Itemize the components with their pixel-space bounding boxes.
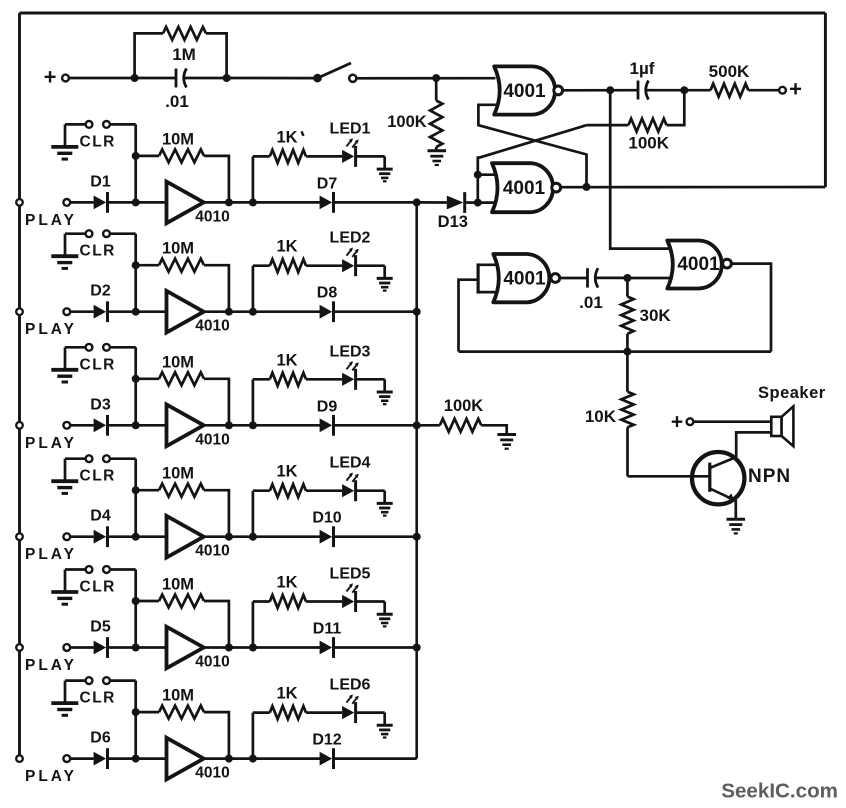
svg-text:PLAY: PLAY	[25, 768, 77, 785]
svg-text:4001: 4001	[503, 178, 546, 199]
node 10M tap row 1	[132, 152, 140, 160]
wire D4 to buffer input	[108, 535, 167, 538]
wire + terminal to 1M/.01 node	[69, 77, 135, 80]
node bus junction row 4	[413, 533, 421, 541]
svg-text:1µf: 1µf	[630, 59, 655, 78]
node junction A (left of .01)	[131, 74, 139, 82]
svg-text:D2: D2	[90, 283, 111, 300]
wire D3 to buffer input	[108, 424, 167, 427]
wire LED1 to ground	[357, 156, 385, 169]
resistor 10M row 1	[136, 130, 229, 202]
svg-text:D11: D11	[313, 621, 342, 638]
node junction CLR row 5	[132, 644, 140, 652]
diode D12	[312, 732, 341, 769]
svg-text:4010: 4010	[195, 765, 229, 782]
ground at CLR row 3	[51, 370, 78, 382]
svg-text:D8: D8	[317, 285, 338, 302]
node junction D (osc RC)	[623, 274, 631, 282]
node + supply terminal (top left)	[44, 65, 69, 90]
svg-text:NPN: NPN	[748, 466, 791, 487]
speaker LS1	[758, 384, 826, 446]
wire LED6 to ground	[357, 713, 385, 726]
resistor 1K row 5	[253, 574, 342, 648]
node junction CLR row 4	[132, 533, 140, 541]
wire 1M feedback loop	[135, 33, 227, 78]
wire buffer output row 5	[204, 646, 323, 649]
svg-text:.01: .01	[165, 92, 189, 111]
svg-text:4010: 4010	[195, 208, 229, 225]
switch S1 pole	[313, 74, 322, 83]
ground at CLR row 5	[51, 592, 78, 604]
resistor 10M row 6	[136, 687, 229, 759]
svg-text:D5: D5	[90, 619, 111, 636]
svg-text:CLR: CLR	[80, 243, 116, 260]
svg-text:D10: D10	[312, 510, 341, 527]
svg-text:CLR: CLR	[80, 133, 116, 150]
svg-text:D7: D7	[317, 175, 338, 192]
transistor Q1 NPN	[692, 452, 791, 504]
diode D9	[317, 398, 338, 435]
svg-text:1K: 1K	[276, 574, 297, 592]
wire D1 to buffer input	[108, 201, 167, 204]
svg-text:1K: 1K	[276, 463, 297, 481]
wire buffer output row 2	[204, 310, 323, 313]
wire D12 to bus	[334, 757, 417, 760]
diode D5	[90, 619, 111, 658]
wire CLR to row 4 line	[110, 459, 136, 537]
svg-text:+: +	[44, 65, 57, 90]
svg-text:4001: 4001	[503, 81, 546, 102]
svg-text:SeekIC.com: SeekIC.com	[721, 780, 838, 803]
wire U4 output down to feedback	[732, 264, 771, 352]
node PLAY bus tap row 6	[16, 755, 23, 762]
svg-text:4010: 4010	[195, 654, 229, 671]
wire to switch	[227, 77, 318, 80]
LED2	[330, 230, 371, 277]
svg-text:1M: 1M	[172, 45, 196, 64]
wire U2 output to right edge	[561, 186, 826, 189]
diode D10	[312, 510, 341, 547]
buffer U9 4010 row 5	[167, 627, 230, 671]
buffer U7 4010 row 3	[167, 405, 230, 449]
svg-text:10M: 10M	[162, 465, 194, 483]
watermark SeekIC.com	[721, 780, 838, 803]
ground after LED6	[377, 725, 393, 737]
ground at CLR row 6	[51, 703, 78, 715]
node bus junction row 5	[413, 644, 421, 652]
svg-text:10M: 10M	[162, 576, 194, 594]
svg-text:10M: 10M	[162, 240, 194, 258]
node 1K tap row 3	[249, 421, 257, 429]
LED1	[330, 120, 371, 167]
svg-text:D6: D6	[90, 730, 111, 747]
node PLAY terminal row 4	[25, 533, 77, 563]
wire D7 to bus	[334, 201, 417, 204]
svg-text:D1: D1	[90, 173, 111, 190]
node junction CLR row 3	[132, 421, 140, 429]
node junction U2 output	[583, 183, 591, 191]
svg-text:CLR: CLR	[80, 356, 116, 373]
resistor 1K row 1	[253, 128, 342, 202]
diode D13	[438, 192, 468, 231]
node 1K tap row 5	[249, 644, 257, 652]
node PLAY terminal row 3	[25, 422, 77, 452]
wire LED2 to ground	[357, 266, 385, 279]
node junction B (right of 1M)	[223, 74, 231, 82]
wire D9 to bus	[334, 424, 417, 427]
wire top edge	[20, 12, 826, 15]
wire CLR to row 2 line	[110, 234, 136, 312]
svg-text:4010: 4010	[195, 431, 229, 448]
switch S1 arm	[318, 63, 352, 78]
wire PLAY to D4	[70, 535, 93, 538]
wire buffer output row 1	[204, 201, 323, 204]
switch CLR row 2	[65, 230, 116, 259]
wire D5 to buffer input	[108, 646, 167, 649]
node 10M output junction row 3	[225, 421, 233, 429]
resistor 10M row 2	[136, 240, 229, 312]
node junction at 100K pulldown	[432, 74, 440, 82]
node bus junction row 3	[413, 421, 421, 429]
buffer U5 4010 row 1	[167, 182, 230, 226]
diode D4	[90, 508, 111, 547]
node 10M output junction row 4	[225, 533, 233, 541]
wire buffer output row 3	[204, 424, 323, 427]
svg-text:D13: D13	[438, 213, 468, 231]
svg-text:.01: .01	[579, 293, 603, 312]
ground at CLR row 2	[51, 256, 78, 268]
resistor 1M	[163, 27, 206, 64]
wire D10 to bus	[334, 535, 417, 538]
buffer U8 4010 row 4	[167, 516, 230, 560]
node 1K tap row 6	[249, 755, 257, 763]
ground at CLR row 1	[51, 147, 78, 159]
svg-text:PLAY: PLAY	[25, 212, 77, 229]
node 10M tap row 5	[132, 597, 140, 605]
switch CLR row 6	[65, 677, 116, 706]
node PLAY bus tap row 2	[16, 308, 23, 315]
svg-text:LED4: LED4	[330, 455, 371, 472]
resistor 1K row 6	[253, 685, 342, 759]
switch CLR row 4	[65, 455, 116, 484]
NOR gate U3 4001	[493, 254, 559, 302]
NOR gate U4 4001	[667, 241, 731, 289]
LED3	[330, 343, 371, 390]
svg-text:1K: 1K	[276, 351, 297, 369]
capacitor 1µf	[630, 59, 685, 100]
wire D2 to buffer input	[108, 310, 167, 313]
node 10M output junction row 6	[225, 755, 233, 763]
svg-text:PLAY: PLAY	[25, 657, 77, 674]
wire row 3 to 100K	[417, 424, 440, 427]
svg-text:PLAY: PLAY	[25, 435, 77, 452]
node + speaker supply	[671, 410, 694, 433]
resistor 1K row 3	[253, 351, 342, 425]
switch CLR row 1	[65, 121, 116, 150]
wire D6 to buffer input	[108, 757, 167, 760]
wire U1 output node down to U4 input	[610, 90, 670, 248]
node U2 upper input	[474, 171, 482, 179]
svg-text:10K: 10K	[585, 407, 617, 426]
wire CLR to row 5 line	[110, 570, 136, 648]
node 10M tap row 6	[132, 708, 140, 716]
switch S1 throw terminal	[349, 75, 356, 82]
wire U1 lower input stub / cross-couple A	[478, 105, 586, 187]
wire cross-couple B to U2 inputs	[478, 125, 587, 175]
node junction E (feedback/10K)	[623, 348, 631, 356]
ground after LED5	[377, 614, 393, 626]
wire U1 output	[563, 89, 638, 92]
switch CLR row 5	[65, 566, 116, 595]
svg-text:1K: 1K	[276, 685, 297, 703]
node PLAY terminal row 6	[25, 755, 77, 785]
ground after row-3 100K	[497, 435, 516, 449]
wire U2 input tie bar	[478, 175, 495, 203]
node junction CLR row 2	[132, 308, 140, 316]
svg-text:100K: 100K	[628, 134, 669, 153]
ground after LED1	[377, 169, 393, 181]
svg-text:D3: D3	[90, 396, 111, 413]
node 1K tap row 2	[249, 308, 257, 316]
svg-text:1K: 1K	[276, 238, 297, 256]
node 10M output junction row 2	[225, 308, 233, 316]
wire PLAY to D2	[70, 310, 93, 313]
svg-text:LED3: LED3	[330, 343, 371, 360]
svg-text:Speaker: Speaker	[758, 384, 826, 402]
svg-text:30K: 30K	[640, 306, 672, 325]
diode D6	[90, 730, 111, 769]
svg-text:4001: 4001	[503, 269, 546, 290]
node 10M output junction row 1	[225, 198, 233, 206]
wire CLR to row 3 line	[110, 347, 136, 425]
svg-text:10M: 10M	[162, 687, 194, 705]
wire left PLAY bus	[18, 13, 21, 759]
node 1K tap row 1	[249, 198, 257, 206]
node PLAY bus tap row 3	[16, 422, 23, 429]
svg-text:4010: 4010	[195, 543, 229, 560]
resistor 100K (row 3)	[440, 397, 507, 435]
resistor 1K row 4	[253, 463, 342, 537]
wire LED5 to ground	[357, 602, 385, 615]
wire PLAY to D6	[70, 757, 93, 760]
node junction C (cap / 500K)	[680, 86, 688, 94]
node PLAY terminal row 1	[25, 199, 77, 229]
buffer U6 4010 row 2	[167, 291, 230, 335]
resistor 100K (pulldown)	[387, 78, 442, 151]
svg-text:LED1: LED1	[330, 120, 371, 137]
wire row 1 to D13	[417, 201, 447, 204]
capacitor .01 (oscillator)	[560, 268, 627, 312]
svg-text:CLR: CLR	[80, 579, 116, 596]
wire D11 to bus	[334, 646, 417, 649]
diode D2	[90, 283, 111, 322]
wire CLR to row 6 line	[110, 681, 136, 759]
node junction U1 output	[606, 86, 614, 94]
node 1K tap row 4	[249, 533, 257, 541]
ground under 100K pulldown	[428, 151, 447, 165]
svg-text:4001: 4001	[677, 254, 720, 275]
switch CLR row 3	[65, 344, 116, 373]
svg-text:CLR: CLR	[80, 468, 116, 485]
node U2 lower input	[474, 199, 482, 207]
ground after LED2	[377, 278, 393, 290]
wire oscillator feedback bottom	[459, 350, 771, 353]
node PLAY bus tap row 4	[16, 533, 23, 540]
LED4	[330, 455, 371, 502]
ground at CLR row 4	[51, 481, 78, 493]
ground after LED4	[377, 503, 393, 515]
svg-text:D4: D4	[90, 508, 111, 525]
wire + to speaker	[693, 420, 771, 423]
node 10M tap row 3	[132, 375, 140, 383]
node PLAY terminal row 2	[25, 308, 77, 338]
svg-text:PLAY: PLAY	[25, 321, 77, 338]
wire switch to gate U1 input	[357, 77, 496, 80]
svg-text:10M: 10M	[162, 130, 194, 148]
LED6	[330, 677, 371, 724]
wire feedback to U3 inputs	[459, 280, 479, 352]
wire PLAY to D5	[70, 646, 93, 649]
wire PLAY to D1	[70, 201, 93, 204]
wire right edge down to latch output	[824, 13, 827, 187]
wire buffer output row 6	[204, 757, 323, 760]
svg-text:LED2: LED2	[330, 230, 371, 247]
node 10M output junction row 5	[225, 644, 233, 652]
resistor 10M row 4	[136, 465, 229, 537]
svg-text:D12: D12	[312, 732, 341, 749]
wire D13 to U2 input	[466, 201, 478, 204]
ground at Q1 emitter	[727, 519, 746, 533]
node 10M tap row 4	[132, 486, 140, 494]
wire LED4 to ground	[357, 491, 385, 504]
diode D11	[313, 621, 342, 658]
wire PLAY to D3	[70, 424, 93, 427]
resistor 30K	[621, 278, 671, 352]
svg-text:+: +	[671, 410, 683, 433]
LED5	[330, 566, 371, 613]
wire Q1 collector to speaker	[736, 432, 771, 457]
svg-text:500K: 500K	[709, 62, 750, 81]
svg-text:PLAY: PLAY	[25, 546, 77, 563]
node + terminal (right)	[779, 77, 802, 102]
node junction CLR row 6	[132, 755, 140, 763]
diode D8	[317, 285, 338, 322]
capacitor .01 (top)	[135, 69, 232, 112]
node PLAY terminal row 5	[25, 644, 77, 674]
wire buffer output row 4	[204, 535, 323, 538]
wire CLR to row 1 line	[110, 124, 136, 202]
wire LED3 to ground	[357, 379, 385, 392]
node 10M tap row 2	[132, 261, 140, 269]
diode D1	[90, 173, 111, 212]
svg-text:LED6: LED6	[330, 677, 371, 694]
resistor 1K row 2	[253, 238, 342, 312]
buffer U10 4010 row 6	[167, 738, 230, 782]
wire D8 to bus	[334, 310, 417, 313]
node junction CLR row 1	[132, 198, 140, 206]
svg-text:D9: D9	[317, 398, 338, 415]
resistor 100K (latch feedback)	[587, 90, 685, 152]
svg-text:1K: 1K	[276, 128, 297, 146]
svg-text:4010: 4010	[195, 318, 229, 335]
resistor 10M row 5	[136, 576, 229, 648]
node bus junction row 2	[413, 308, 421, 316]
wire U3 input tie bar	[478, 263, 495, 293]
svg-text:CLR: CLR	[80, 690, 116, 707]
resistor 10M row 3	[136, 353, 229, 425]
node bus junction row 1	[413, 198, 421, 206]
ground after LED3	[377, 392, 393, 404]
resistor 10K	[585, 352, 634, 477]
wire right collector bus	[415, 202, 418, 758]
diode D3	[90, 396, 111, 435]
svg-text:LED5: LED5	[330, 566, 371, 583]
node PLAY bus tap row 1	[16, 199, 23, 206]
wire cap to U4 lower input	[627, 277, 670, 280]
svg-text:10M: 10M	[162, 353, 194, 371]
svg-text:100K: 100K	[444, 397, 484, 415]
wire Q1 emitter to ground	[734, 500, 737, 519]
resistor 500K	[684, 62, 779, 97]
NOR gate U1 4001	[494, 66, 562, 114]
wire 10K to Q1 base	[628, 475, 695, 478]
svg-text:+: +	[789, 77, 802, 102]
node PLAY bus tap row 5	[16, 644, 23, 651]
NOR gate U2 4001	[492, 163, 561, 212]
svg-text:100K: 100K	[387, 113, 427, 131]
diode D7	[317, 175, 338, 212]
